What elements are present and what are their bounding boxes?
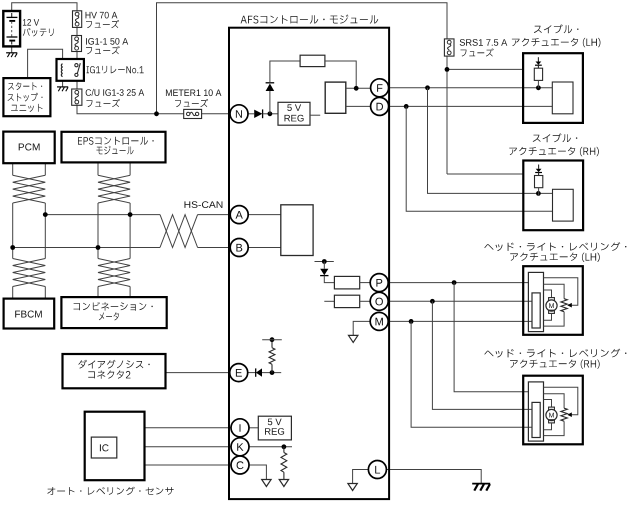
junction inside swivel RH [536,191,541,196]
leveling connector inner [532,402,540,437]
twisted pair EPS lower (combination meter) [98,259,130,287]
label leveling actuator RH [484,349,626,358]
wire P rail to leveling LH [388,282,528,284]
net CAN-H bus [45,214,160,216]
label C/U IG1-3 25A fuse [86,89,145,96]
terminal K [231,438,249,456]
diode D4 (at E) [255,368,257,376]
terminal N [230,105,248,123]
relay switch [75,64,78,67]
wire I terminal to 5V REG (lower) [249,427,258,429]
wire potentiometer top [544,394,565,409]
relay IG1 No.1 [57,59,84,81]
EPS control module box [62,132,166,163]
wire R2 to P terminal [360,282,371,284]
start-stop unit box [3,78,50,116]
junction O rail [430,299,435,304]
junction PCM CAN-H [43,212,48,217]
resistor R5 (K pull-down) [283,447,285,453]
wire HV fuse to IG1-1 fuse [76,27,78,35]
ground (M, open triangle) [349,335,358,342]
wire EPS pair verticals [97,163,99,176]
twisted pair PCM upper [13,175,46,203]
junction PCM CAN-L [10,245,15,250]
wire M rail drop to leveling RH [411,321,532,427]
wire IC to C terminal [105,458,231,465]
motor M [549,407,555,410]
wire C terminal to signal ground [249,465,266,480]
wire potentiometer bottom [544,421,565,435]
terminal C [231,456,249,474]
terminal B [230,239,248,257]
CAN transceiver U3 [281,205,313,256]
leveling actuator box [523,266,583,335]
wire O rail to leveling LH [388,300,532,302]
wire motor plus [544,290,552,298]
label start stop unit [8,82,42,90]
zener diode D2 (to resistor loop) [269,91,271,114]
wire IG1-1 fuse to relay [76,52,78,60]
wire B+ stub at R4 top [262,339,282,341]
wire N terminal to diode [248,113,254,115]
junction K pull-down [282,444,287,449]
junction E pull-up bottom [270,370,275,375]
junction M rail [409,319,414,324]
wire M rail to leveling LH [388,320,532,322]
fuse SRS1 7.5A [444,39,454,56]
potentiometer resistor [561,299,567,312]
junction E pull-up top [270,337,275,342]
swivel diode [538,165,540,169]
swivel actuator box [523,161,583,231]
label auto leveling sensor [47,487,173,495]
wire 5V REG output stub [310,114,320,116]
motor M [549,298,555,301]
leveling connector inner [532,293,540,328]
wire D rail to swivel LH motor [388,105,552,107]
potentiometer resistor [561,408,567,421]
relay coil [61,64,62,77]
ground (L internal, open triangle) [348,484,357,491]
wire diagnosis connector to E terminal [166,372,230,374]
fuse C/U IG1-3 25A [72,89,82,105]
twisted pair HS-CAN to module [160,215,198,248]
wire CAN-H to A terminal [198,214,231,216]
swivel resistor block [534,68,542,80]
terminal I [231,419,249,437]
resistor R4 (E pull-up) [271,364,273,372]
wire U2 to F terminal [346,87,371,89]
wire motor minus [544,313,552,320]
ground (K, open triangle) [279,480,288,487]
terminal F [371,79,389,97]
wire P rail drop to leveling RH [454,283,528,392]
AFS control module box U1 [229,28,389,499]
wire zener to resistor R1 loop [270,61,300,83]
wire potentiometer top [544,284,565,299]
wire F rail drop to swivel RH [428,88,553,194]
label HS-CAN [184,201,222,208]
regulator 5V REG (lower) [258,416,291,440]
terminal E [230,364,248,382]
wire PCM pair verticals [12,163,14,176]
ground chassis (L) [472,483,490,485]
ground battery [6,52,17,54]
wire stub to resistor R3 [324,300,334,302]
junction EPS CAN-L [96,245,101,250]
wire battery negative to ground [11,46,13,52]
label 12V battery [23,19,39,26]
junction zener tap [268,111,273,116]
wire SRS1 fuse down-feed to swivel actuators [446,56,448,174]
label METER1 10A fuse [166,89,221,96]
wire B terminal to CAN transceiver [248,247,281,249]
swivel motor block [552,82,573,114]
swivel actuator box [523,53,583,123]
twisted pair PCM lower (FBCM) [13,259,46,287]
diode D3 (feeds P pull-up) [323,262,325,269]
wire O rail drop to leveling RH [432,301,532,409]
wire E terminal to diode D4 [248,372,256,374]
label swivel actuator LH [534,24,579,33]
wire wiper loop [544,387,578,415]
wire relay coil to ground [62,77,64,87]
combination meter box [61,297,166,328]
wire motor plus [544,400,552,408]
wire A terminal to CAN transceiver [248,214,281,216]
diode D1 (series from N) [254,110,262,118]
wire motor minus [544,423,552,430]
wire start-stop unit to relay coil [28,49,63,78]
swivel motor block [553,189,574,221]
label swivel actuator RH [533,133,578,142]
regulator 5V REG (upper) [278,102,310,125]
ic block U2 (F/D driver) [325,82,346,113]
junction EPS CAN-H [128,212,133,217]
wire C/U fuse to N terminal row [77,105,230,114]
wire R3 to O terminal [360,300,371,302]
junction main row / riser [154,111,159,116]
wire R1 to F node [325,61,356,88]
ground relay coil [57,86,68,88]
label HV 70A fuse [86,12,118,19]
terminal P [370,274,388,292]
net CAN-L bus [13,247,160,249]
label leveling actuator LH [484,242,626,251]
terminal D [371,97,389,115]
IC block [91,437,117,458]
wire B+ stub above diode D3 [315,261,334,263]
swivel resistor block [535,176,543,188]
wire relay to C/U fuse [76,81,78,89]
wire L terminal to chassis ground [386,470,481,484]
wire D4 to pull-up node [262,372,281,374]
wire SRS1 branch to swivel LH [447,68,523,70]
wire potentiometer bottom [544,312,565,326]
label SRS1 7.5A fuse [460,39,508,46]
diagnosis connector 2 box [63,354,166,388]
label diagnosis connector 2 [78,360,149,369]
wire F rail to swivel LH motor [388,87,552,89]
label IG1 relay No.1 [87,66,144,74]
wire wiper loop [544,278,578,306]
junction P rail [452,280,457,285]
junction D3 feed [322,259,327,264]
fuse METER1 10A [184,109,202,118]
junction SRS1 branch [445,67,450,72]
junction inside swivel LH [536,85,541,90]
junction F loop [354,86,359,91]
leveling connector outer [528,382,543,441]
label EPS control module [78,137,154,145]
resistor R2 (P) [334,276,359,289]
wire D rail drop to swivel RH [406,106,552,211]
fuse IG1-1 50A [72,36,82,52]
wire IC to K terminal [117,446,231,448]
twisted pair EPS upper [98,175,130,203]
junction F rail [425,85,430,90]
wire L terminal to internal ground [353,470,369,484]
wire K terminal sense line [249,446,292,448]
wire diode to 5V REG [263,113,278,115]
battery B1 [3,11,20,46]
wire CAN-L to B terminal [198,247,231,249]
resistor R3 (O) [334,295,359,307]
wire riser to top rail and SRS1 fuse [157,3,448,114]
ground (C, open triangle) [262,480,271,487]
leveling actuator box [523,376,583,445]
leveling connector outer [528,272,543,331]
wire battery to HV fuse [12,3,77,11]
wire SRS1 branch to swivel RH [447,173,523,175]
swivel diode [537,57,539,61]
terminal O [370,292,388,310]
label AFS control module [241,15,379,24]
auto leveling sensor box [85,412,145,481]
terminal A [230,206,248,224]
label IG1-1 50A fuse [86,38,128,45]
wire M terminal to signal ground [353,321,370,335]
wire D3 to resistor R2 [324,276,334,283]
wire U2 to D terminal [346,105,371,107]
FBCM box [4,299,55,329]
PCM box [3,132,54,164]
fuse HV 70A [73,11,82,28]
terminal L [368,461,386,479]
terminal M [370,312,388,330]
wire auto leveling sensor IC to I terminal [105,428,231,437]
junction D rail [404,104,409,109]
resistor R1 (top loop) [300,55,325,66]
label combination meter [74,302,153,311]
